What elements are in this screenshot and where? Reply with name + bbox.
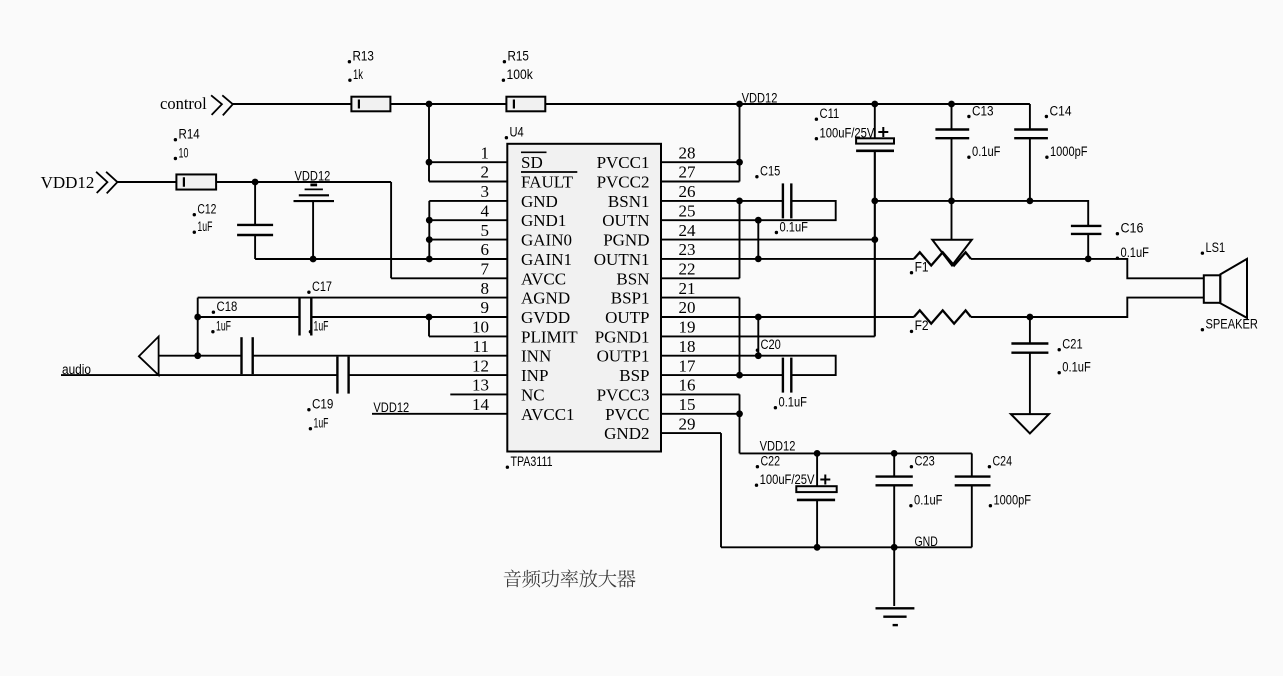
svg-text:1000pF: 1000pF bbox=[1050, 144, 1088, 159]
svg-text:AVCC1: AVCC1 bbox=[521, 405, 575, 424]
svg-text:13: 13 bbox=[472, 376, 489, 395]
svg-text:C15: C15 bbox=[760, 164, 780, 179]
svg-text:17: 17 bbox=[679, 356, 697, 375]
svg-text:8: 8 bbox=[481, 279, 490, 298]
svg-text:PVCC2: PVCC2 bbox=[597, 173, 650, 192]
svg-text:INN: INN bbox=[521, 347, 551, 366]
svg-text:21: 21 bbox=[679, 279, 696, 298]
svg-text:C11: C11 bbox=[820, 106, 840, 121]
svg-text:7: 7 bbox=[481, 260, 490, 279]
svg-text:0.1uF: 0.1uF bbox=[972, 144, 1001, 159]
svg-text:14: 14 bbox=[472, 395, 490, 414]
svg-text:0.1uF: 0.1uF bbox=[1062, 360, 1091, 375]
svg-text:audio: audio bbox=[62, 362, 91, 377]
svg-text:2: 2 bbox=[481, 163, 490, 182]
svg-text:AGND: AGND bbox=[521, 289, 570, 308]
svg-text:C21: C21 bbox=[1062, 337, 1082, 352]
svg-text:C13: C13 bbox=[972, 103, 994, 118]
svg-text:0.1uF: 0.1uF bbox=[780, 219, 809, 234]
svg-text:TPA3111: TPA3111 bbox=[511, 454, 553, 469]
svg-text:INP: INP bbox=[521, 366, 548, 385]
svg-text:GND2: GND2 bbox=[604, 424, 649, 443]
svg-text:VDD12: VDD12 bbox=[760, 439, 796, 454]
svg-text:6: 6 bbox=[481, 240, 490, 259]
svg-text:28: 28 bbox=[679, 143, 696, 162]
svg-text:BSP1: BSP1 bbox=[611, 289, 650, 308]
svg-text:18: 18 bbox=[679, 337, 696, 356]
svg-text:SPEAKER: SPEAKER bbox=[1206, 317, 1259, 332]
svg-text:1000pF: 1000pF bbox=[994, 493, 1032, 508]
svg-text:BSN1: BSN1 bbox=[608, 192, 650, 211]
svg-text:OUTN: OUTN bbox=[602, 211, 649, 230]
svg-text:PVCC1: PVCC1 bbox=[597, 153, 650, 172]
svg-text:23: 23 bbox=[679, 240, 696, 259]
svg-text:1uF: 1uF bbox=[216, 319, 231, 334]
svg-text:1: 1 bbox=[481, 143, 490, 162]
svg-text:C19: C19 bbox=[312, 397, 333, 412]
svg-text:control: control bbox=[160, 94, 207, 113]
svg-text:100k: 100k bbox=[507, 67, 534, 82]
svg-text:F1: F1 bbox=[915, 260, 929, 275]
svg-text:10: 10 bbox=[179, 145, 189, 160]
svg-text:1uF: 1uF bbox=[314, 416, 329, 431]
svg-text:5: 5 bbox=[481, 221, 490, 240]
svg-text:VDD12: VDD12 bbox=[295, 169, 331, 184]
svg-text:10: 10 bbox=[472, 318, 489, 337]
svg-text:PGND: PGND bbox=[603, 231, 649, 250]
svg-text:FAULT: FAULT bbox=[521, 173, 574, 192]
svg-text:27: 27 bbox=[679, 163, 697, 182]
svg-text:PVCC: PVCC bbox=[605, 405, 649, 424]
svg-text:GND1: GND1 bbox=[521, 211, 566, 230]
svg-text:16: 16 bbox=[679, 376, 696, 395]
svg-text:0.1uF: 0.1uF bbox=[779, 395, 808, 410]
svg-text:R14: R14 bbox=[179, 127, 201, 142]
svg-text:1uF: 1uF bbox=[314, 319, 329, 334]
svg-text:AVCC: AVCC bbox=[521, 269, 566, 288]
svg-text:1k: 1k bbox=[353, 67, 363, 82]
svg-text:100uF/25V: 100uF/25V bbox=[820, 126, 875, 141]
svg-text:25: 25 bbox=[679, 201, 696, 220]
svg-text:100uF/25V: 100uF/25V bbox=[760, 472, 815, 487]
svg-text:U4: U4 bbox=[510, 125, 525, 140]
svg-text:0.1uF: 0.1uF bbox=[914, 493, 943, 508]
svg-text:19: 19 bbox=[679, 318, 696, 337]
svg-text:VDD12: VDD12 bbox=[41, 173, 95, 192]
svg-text:15: 15 bbox=[679, 395, 696, 414]
svg-text:4: 4 bbox=[481, 201, 490, 220]
svg-text:SD: SD bbox=[521, 153, 543, 172]
svg-text:29: 29 bbox=[679, 414, 696, 433]
svg-text:C18: C18 bbox=[217, 299, 238, 314]
svg-text:22: 22 bbox=[679, 260, 696, 279]
svg-text:11: 11 bbox=[473, 337, 489, 356]
svg-text:C23: C23 bbox=[915, 454, 935, 469]
svg-text:LS1: LS1 bbox=[1206, 240, 1226, 255]
svg-text:GND: GND bbox=[521, 192, 558, 211]
svg-text:24: 24 bbox=[679, 221, 697, 240]
svg-text:R15: R15 bbox=[508, 49, 529, 64]
svg-text:0.1uF: 0.1uF bbox=[1121, 245, 1150, 260]
svg-text:C14: C14 bbox=[1050, 103, 1072, 118]
svg-text:C16: C16 bbox=[1121, 221, 1144, 236]
svg-text:C20: C20 bbox=[761, 337, 781, 352]
svg-text:PGND1: PGND1 bbox=[595, 327, 650, 346]
svg-text:C12: C12 bbox=[197, 202, 216, 217]
svg-text:PLIMIT: PLIMIT bbox=[521, 327, 578, 346]
svg-text:OUTP: OUTP bbox=[605, 308, 649, 327]
svg-text:PVCC3: PVCC3 bbox=[597, 385, 650, 404]
svg-text:VDD12: VDD12 bbox=[742, 91, 778, 106]
svg-text:BSN: BSN bbox=[616, 269, 649, 288]
svg-text:GVDD: GVDD bbox=[521, 308, 570, 327]
svg-text:F2: F2 bbox=[915, 318, 929, 333]
svg-text:BSP: BSP bbox=[619, 366, 649, 385]
svg-text:20: 20 bbox=[679, 298, 696, 317]
svg-text:9: 9 bbox=[481, 298, 490, 317]
svg-text:GAIN0: GAIN0 bbox=[521, 231, 572, 250]
svg-text:R13: R13 bbox=[353, 49, 374, 64]
svg-text:OUTN1: OUTN1 bbox=[594, 250, 650, 269]
svg-text:GND: GND bbox=[915, 534, 938, 549]
svg-text:C17: C17 bbox=[312, 279, 332, 294]
svg-text:3: 3 bbox=[481, 182, 490, 201]
svg-text:GAIN1: GAIN1 bbox=[521, 250, 572, 269]
svg-text:12: 12 bbox=[472, 356, 489, 375]
svg-text:1uF: 1uF bbox=[197, 219, 212, 234]
svg-text:VDD12: VDD12 bbox=[373, 400, 409, 415]
svg-text:C22: C22 bbox=[761, 454, 781, 469]
svg-text:26: 26 bbox=[679, 182, 696, 201]
svg-text:C24: C24 bbox=[993, 454, 1013, 469]
svg-text:NC: NC bbox=[521, 385, 545, 404]
svg-text:OUTP1: OUTP1 bbox=[597, 347, 650, 366]
